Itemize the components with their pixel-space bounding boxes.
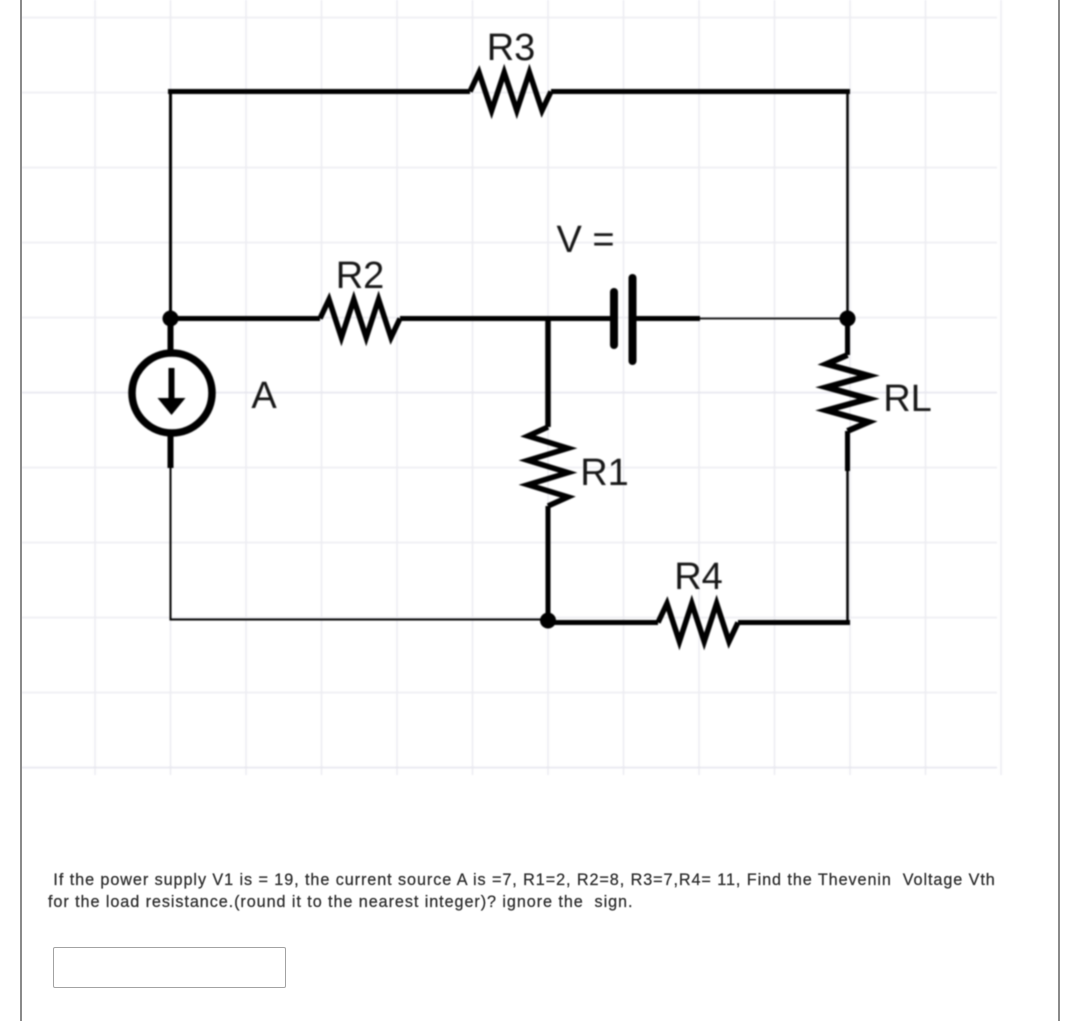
wire middle left segment	[171, 316, 321, 321]
current source A stub above	[168, 316, 174, 354]
capacitor V right plate	[629, 278, 637, 361]
resistor R4	[658, 604, 738, 642]
resistor RL zigzag	[827, 355, 869, 431]
resistor RL top stub	[845, 319, 850, 356]
wire bottom right segment to R4	[548, 620, 658, 625]
resistor R1 bottom lead	[546, 506, 551, 621]
resistor R3	[470, 73, 551, 111]
capacitor right lead	[637, 316, 701, 321]
resistor R1 top lead	[545, 316, 551, 427]
resistor R2	[320, 300, 400, 338]
svg-text:RL: RL	[883, 378, 932, 420]
current source A circle	[132, 353, 212, 433]
wire left vertical lower (thin)	[170, 461, 172, 621]
resistor RL bottom stub	[845, 431, 850, 471]
wire right vertical lower (thin)	[846, 470, 849, 624]
wire top-left segment	[168, 89, 470, 94]
wire middle segment R2 to capacitor	[400, 316, 610, 321]
svg-text:R1: R1	[580, 452, 629, 494]
answer input box	[53, 947, 286, 988]
wire right vertical upper	[846, 89, 849, 319]
wire capacitor to right node (thin)	[700, 318, 848, 320]
node junction right (dot)	[840, 311, 856, 327]
current source A stub below	[168, 434, 174, 468]
svg-text:V =: V =	[556, 219, 614, 261]
wire bottom left (thin)	[171, 619, 549, 621]
wire left vertical	[169, 89, 172, 319]
side border lines	[20, 0, 22, 1021]
svg-text:R3: R3	[487, 27, 536, 69]
wire R4 to bottom right corner	[738, 620, 850, 625]
resistor R1 zigzag	[528, 427, 568, 506]
capacitor V left plate	[610, 292, 618, 345]
node junction left (dot)	[163, 311, 179, 327]
current source A arrow	[169, 368, 175, 399]
svg-text:R4: R4	[674, 556, 723, 598]
wire top-right segment	[551, 89, 850, 94]
svg-text:A: A	[251, 375, 277, 417]
svg-text:R2: R2	[336, 255, 385, 297]
question text	[48, 869, 1008, 913]
node junction bottom (dot)	[540, 613, 556, 629]
